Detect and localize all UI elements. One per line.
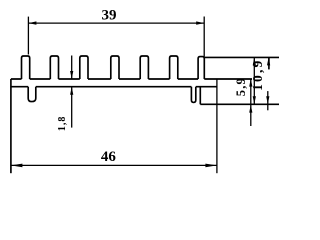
right flange bottom line with extension to image edge	[200, 103, 279, 105]
base top line segments between fins	[11, 78, 252, 80]
fin 3	[80, 56, 88, 79]
svg-text:39: 39	[102, 8, 117, 24]
10,9 right top arrowhead at flange corner	[267, 57, 270, 65]
46 dimension line	[11, 164, 217, 166]
heatsink profile outline	[11, 56, 279, 173]
10,9 right bottom arrowhead at flange bottom	[266, 96, 269, 104]
fin 1	[22, 56, 30, 79]
5,9 dimension line	[250, 79, 252, 126]
10,9 bottom arrowhead pointing down on its line	[253, 96, 256, 104]
svg-text:5,9: 5,9	[234, 77, 248, 96]
39 dimension line	[28, 22, 204, 24]
39 right extension line	[203, 17, 205, 57]
downward fin left (U slot)	[28, 87, 36, 102]
dimension 10,9	[254, 57, 267, 110]
10,9 right lower arrow tail	[267, 91, 269, 110]
5,9 top arrowhead pointing up	[249, 79, 252, 87]
dimension 5,9	[250, 79, 252, 126]
fin 7	[198, 57, 204, 79]
svg-text:10,9: 10,9	[250, 58, 265, 90]
1,8 top arrowhead pointing down	[70, 71, 73, 79]
svg-text:46: 46	[101, 149, 117, 165]
1,8 lower dimension line tail	[71, 87, 73, 128]
dimension 46	[11, 79, 217, 173]
fin 5	[140, 56, 148, 79]
left edge and 46 left extension line	[10, 79, 12, 173]
39 left arrowhead	[28, 21, 36, 24]
fin 6	[170, 56, 178, 79]
fin 4	[111, 56, 119, 79]
dimension texts	[57, 8, 265, 165]
10,9 dimension line	[253, 57, 255, 104]
5,9 bottom arrowhead pointing up below flange bottom	[249, 105, 252, 113]
46 right arrowhead	[205, 164, 217, 168]
1,8 bottom arrowhead pointing up	[70, 87, 73, 95]
39 right arrowhead	[196, 21, 204, 24]
dimension 1,8	[71, 56, 73, 128]
arrowheads	[11, 21, 270, 167]
svg-text:1,8: 1,8	[57, 116, 68, 131]
46 right extension line (also step edge of flange)	[216, 79, 218, 173]
dimension 39	[28, 17, 204, 57]
46 left arrowhead	[11, 164, 23, 168]
fin 2	[50, 56, 58, 79]
base bottom line segments	[11, 86, 217, 88]
1,8 upper dimension line tail	[71, 56, 73, 80]
39 left extension line	[27, 17, 29, 55]
right flange upper-right edge stub	[268, 57, 270, 69]
downward fin right (U slot)	[191, 87, 195, 103]
10,9 top arrowhead pointing up on its line	[253, 57, 256, 65]
right flange top line with extension to image edge	[204, 56, 279, 58]
right flange lower-left edge	[199, 87, 201, 105]
